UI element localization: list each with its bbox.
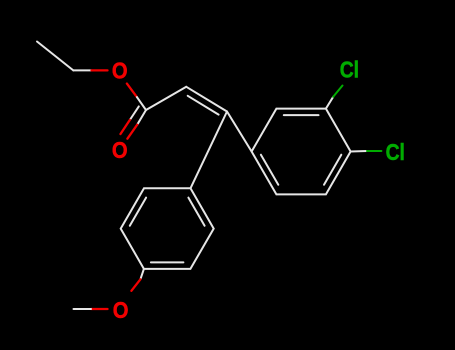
wire ethyl CH3-CH2	[37, 42, 73, 71]
ring2 inner aromatic line upper-left	[130, 198, 146, 226]
wire ring2-O white half	[140, 269, 144, 279]
wire C7-C8	[146, 87, 186, 110]
wire CH2-O white half	[73, 69, 91, 71]
wire C9-ring2 attach (long)	[191, 112, 228, 189]
svg-text:O: O	[112, 57, 128, 84]
ring2 inner aromatic line bottom	[151, 261, 184, 263]
wire C7=O2 main white half	[137, 110, 146, 125]
wire CH2-O red half	[92, 69, 108, 71]
wire O-C7 white half	[137, 97, 146, 110]
wire C8=C9 main	[186, 87, 227, 112]
wire O-C7 red half	[127, 84, 137, 98]
wire C4'-Cl2 green half	[367, 150, 381, 152]
ring2 inner aromatic line upper-right	[188, 198, 204, 226]
ring1 inner aromatic line bottom-left	[261, 155, 278, 185]
wire C7=O2 main red half	[127, 125, 137, 139]
ring1 inner aromatic line bottom-right	[324, 155, 341, 185]
svg-text:O: O	[112, 137, 128, 164]
wire C3'-Cl1 white half	[326, 97, 333, 109]
wire ring2-O red half	[131, 279, 140, 291]
ring2 benzene outline (methoxyphenyl)	[121, 188, 214, 269]
wire C4'-Cl2 white half	[351, 150, 367, 153]
wire C8=C9 inner	[188, 96, 219, 115]
wire C3'-Cl1 green half	[333, 86, 342, 97]
svg-text:O: O	[113, 297, 129, 324]
wire C9-ring1 ipso	[227, 112, 252, 152]
ring1 inner aromatic line top	[284, 114, 319, 116]
ring1 benzene outline (dichlorophenyl)	[252, 109, 351, 195]
wire O-CH3 red half	[91, 308, 108, 310]
svg-text:Cl: Cl	[386, 141, 405, 166]
wire C7=O2 inner red part	[121, 120, 130, 134]
svg-text:Cl: Cl	[340, 58, 359, 83]
wire C7=O2 inner white part	[130, 106, 139, 120]
wire O-CH3 white half	[74, 308, 92, 310]
